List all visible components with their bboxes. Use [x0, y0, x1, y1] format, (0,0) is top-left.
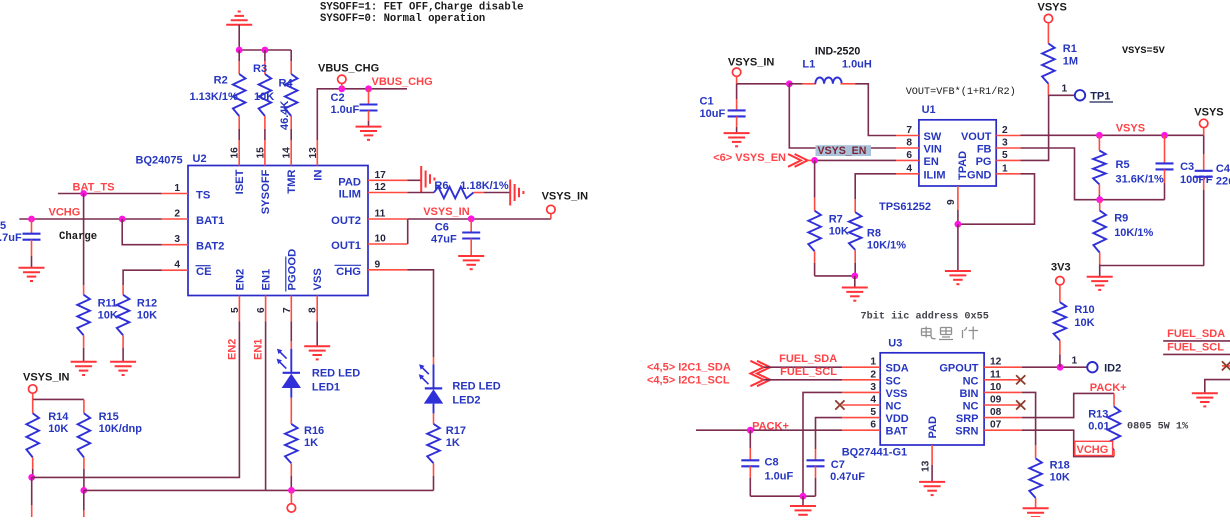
junction bottom ground	[800, 493, 807, 500]
svg-text:7: 7	[906, 125, 912, 136]
svg-text:LED1: LED1	[312, 382, 340, 394]
capacitor C7 bottom lead	[815, 466, 817, 478]
ground below C1	[724, 132, 750, 134]
svg-text:R11: R11	[98, 298, 118, 310]
svg-text:<6> VSYS_EN: <6> VSYS_EN	[713, 152, 786, 164]
svg-text:EN2: EN2	[234, 269, 246, 291]
svg-text:2: 2	[1002, 125, 1008, 136]
svg-text:VSS: VSS	[886, 388, 908, 400]
svg-text:TMR: TMR	[286, 170, 298, 194]
LED LED1	[290, 349, 292, 373]
ground bottom right	[1192, 392, 1218, 394]
resistor R7 top lead	[814, 160, 816, 197]
U2 pin 13 (IN) stub	[316, 140, 318, 166]
U3 pin 11 (NC) stub	[984, 379, 1022, 381]
U3 pin 08 (SRP) stub	[984, 417, 1022, 419]
svg-text:R5: R5	[1116, 159, 1130, 171]
svg-text:10K/1%: 10K/1%	[867, 240, 906, 252]
svg-text:VSYS_EN: VSYS_EN	[818, 145, 867, 157]
wire EN pin	[807, 159, 814, 161]
svg-text:VBUS_CHG: VBUS_CHG	[372, 76, 433, 88]
resistor R9 bottom lead	[1099, 253, 1101, 265]
capacitor C2	[360, 103, 378, 105]
ground below C2	[356, 126, 382, 128]
capacitor C6	[462, 231, 480, 233]
wire to VSYS right terminal	[1203, 128, 1205, 136]
svg-text:R16: R16	[304, 425, 324, 437]
capacitor C1 bottom lead	[736, 116, 738, 127]
wire FUEL_SCL right edge	[1163, 353, 1230, 355]
svg-text:VDD: VDD	[886, 413, 909, 425]
wire R2 bottom lead	[238, 116, 240, 129]
resistor R15	[78, 413, 91, 457]
capacitor C8	[741, 459, 759, 461]
wire R6 right lead	[474, 192, 485, 194]
junction BAT2 branch	[119, 216, 126, 223]
svg-text:<4,5> I2C1_SDA: <4,5> I2C1_SDA	[647, 362, 731, 374]
svg-text:10K: 10K	[1074, 317, 1094, 329]
junction R5/R9	[1096, 196, 1103, 203]
svg-text:ISET: ISET	[234, 169, 246, 194]
svg-text:11: 11	[990, 369, 1001, 380]
svg-text:PGOOD: PGOOD	[286, 249, 298, 291]
resistor R15 top lead	[83, 399, 85, 413]
wire VSS bend to ground rail	[803, 392, 842, 496]
wire EN1/LED bottom row	[84, 489, 434, 491]
capacitor C7	[807, 459, 825, 461]
svg-text:C5: C5	[0, 220, 6, 232]
terminal 3V3	[1056, 277, 1064, 285]
svg-text:2: 2	[174, 209, 180, 220]
svg-text:R8: R8	[867, 228, 881, 240]
wire to VSYS_IN terminal	[550, 214, 552, 219]
U3 pin 6 (BAT) stub	[842, 429, 880, 431]
off-page connector VSYS_EN	[788, 154, 801, 167]
svg-text:1K: 1K	[304, 437, 318, 449]
svg-text:12: 12	[375, 182, 387, 193]
svg-text:IN: IN	[312, 170, 324, 181]
svg-text:9: 9	[375, 259, 381, 270]
resistor R18	[1029, 458, 1042, 498]
svg-text:2: 2	[870, 369, 876, 380]
svg-text:VSYS: VSYS	[1116, 123, 1145, 135]
junction R7/R8 ground	[851, 273, 858, 280]
wire EN2 row to pin 5	[32, 322, 240, 478]
svg-text:R7: R7	[829, 214, 843, 226]
svg-text:ILIM: ILIM	[339, 189, 361, 201]
svg-text:R18: R18	[1050, 460, 1070, 472]
resistor R10 bottom lead	[1059, 341, 1061, 355]
junction R3 top	[262, 47, 269, 54]
resistor R18 top lead	[1035, 445, 1037, 458]
svg-text:16: 16	[230, 147, 241, 159]
U2 pin 4 (CE) stub	[162, 269, 189, 271]
junction C8 top	[747, 427, 754, 434]
wire SRP to R13 top	[1022, 393, 1114, 417]
svg-text:10uF: 10uF	[700, 108, 726, 120]
resistor R11 top lead	[83, 285, 85, 295]
wire ground to resistor top row	[238, 25, 240, 50]
terminal VSYS_IN top	[732, 68, 740, 76]
off-page connector I2C1_SDA/SCL	[750, 361, 763, 386]
svg-text:9: 9	[946, 199, 957, 205]
resistor R8 top lead	[854, 199, 856, 212]
resistor R1 bottom lead	[1047, 84, 1049, 96]
svg-text:R3: R3	[253, 63, 267, 75]
U2 pin 8 (VSS) stub	[316, 296, 318, 322]
svg-text:09: 09	[990, 395, 1002, 406]
wire R4 bottom lead	[290, 116, 292, 129]
svg-text:1K: 1K	[446, 437, 460, 449]
testpoint ID2	[1087, 362, 1097, 372]
capacitor C2 bottom lead	[368, 111, 370, 122]
svg-text:12: 12	[990, 357, 1002, 368]
capacitor C4	[1195, 170, 1213, 172]
highlight VSYS_EN selection	[816, 145, 872, 156]
wire SRN to R13 bottom	[1022, 430, 1114, 456]
svg-text:1.0uH: 1.0uH	[842, 59, 872, 71]
svg-text:C7: C7	[831, 459, 845, 471]
resistor R4	[285, 74, 298, 116]
svg-text:VSYS: VSYS	[1038, 2, 1067, 14]
resistor R13 bottom lead	[1113, 450, 1115, 457]
wire to ground	[854, 276, 856, 288]
svg-text:VSYS_IN: VSYS_IN	[542, 191, 589, 203]
svg-text:C3: C3	[1180, 161, 1194, 173]
svg-text:LED2: LED2	[452, 395, 480, 407]
svg-text:10K: 10K	[829, 226, 849, 238]
svg-text:10K/dnp: 10K/dnp	[99, 423, 143, 435]
svg-text:46.4K: 46.4K	[279, 101, 291, 130]
svg-text:10K/1%: 10K/1%	[1114, 227, 1153, 239]
resistor R12 bottom lead	[122, 335, 124, 348]
svg-text:VSYS_IN: VSYS_IN	[728, 57, 775, 69]
wire VSYS_IN to R14/R15 row	[32, 393, 34, 399]
wire to bottom terminal	[290, 490, 292, 503]
capacitor C8 bottom lead	[749, 466, 751, 478]
svg-text:BQ24075: BQ24075	[136, 155, 183, 167]
wire BAT row	[696, 429, 842, 431]
svg-text:4.7uF: 4.7uF	[0, 232, 22, 244]
svg-text:IND-2520: IND-2520	[815, 46, 860, 58]
U1 pin 4 (ILIM) stub	[896, 173, 919, 175]
svg-text:BIN: BIN	[960, 388, 979, 400]
wire LED2 to R17	[433, 413, 435, 424]
svg-text:NC: NC	[963, 375, 979, 387]
capacitor C6 bottom lead	[470, 239, 472, 257]
svg-text:R1: R1	[1063, 43, 1077, 55]
svg-text:10: 10	[375, 234, 387, 245]
svg-text:VIN: VIN	[924, 144, 942, 156]
no-connect X right edge	[1222, 361, 1230, 370]
svg-text:R10: R10	[1074, 304, 1094, 316]
terminal VSYS_IN right	[547, 205, 555, 213]
svg-text:R14: R14	[48, 411, 69, 423]
svg-text:R6: R6	[434, 180, 448, 192]
svg-text:FB: FB	[977, 144, 992, 156]
U2 pin 10 (OUT1) stub	[368, 243, 408, 245]
svg-text:EN1: EN1	[252, 339, 264, 360]
U2 pin 7 (PGOOD) stub	[290, 296, 292, 322]
svg-text:EN1: EN1	[261, 269, 273, 291]
svg-text:1M: 1M	[1063, 56, 1078, 68]
wire GND pin to TPAD	[958, 174, 1035, 224]
resistor R14	[26, 413, 39, 457]
svg-text:8: 8	[308, 307, 319, 313]
no-connect X pin 11	[1016, 375, 1025, 384]
resistor R17 bottom lead	[433, 463, 435, 476]
inductor L1	[815, 77, 841, 83]
junction C5 top	[28, 216, 35, 223]
capacitor C6 top lead	[470, 219, 472, 233]
svg-text:13: 13	[921, 460, 932, 472]
junction R14 bottom	[28, 474, 35, 481]
resistor R8	[849, 212, 862, 250]
svg-text:NC: NC	[963, 401, 979, 413]
svg-text:SRP: SRP	[956, 413, 979, 425]
svg-text:7bit iic address 0x55: 7bit iic address 0x55	[861, 311, 989, 323]
svg-text:VOUT=VFB*(1+R1/R2): VOUT=VFB*(1+R1/R2)	[906, 86, 1016, 98]
wire VSYS_IN to L1 row	[736, 76, 738, 83]
junction VBUS terminal	[338, 85, 345, 92]
svg-text:OUT1: OUT1	[331, 240, 361, 252]
wire OUT2/OUT1 join	[407, 219, 409, 244]
junction R2 top	[236, 47, 243, 54]
U1 pin 2 (VOUT) stub	[996, 135, 1020, 137]
svg-text:5: 5	[1002, 150, 1008, 161]
ground above R2/R3	[226, 24, 252, 26]
wire pin 7 to LED1	[290, 322, 292, 342]
terminal VSYS top	[1044, 14, 1052, 22]
terminal VSYS_IN bottom-left	[29, 385, 37, 393]
wire R7 to R8 bottom row	[815, 275, 855, 277]
svg-text:07: 07	[990, 420, 1002, 431]
resistor R2	[233, 74, 246, 116]
U1 pin 9 (TPAD) stub	[957, 186, 959, 210]
svg-text:VSS: VSS	[312, 268, 324, 291]
svg-text:FUEL_SCL: FUEL_SCL	[1167, 342, 1224, 354]
U3 pin 4 (NC) stub	[842, 404, 880, 406]
svg-text:5: 5	[230, 307, 241, 313]
U3 pin 09 (NC) stub	[984, 404, 1022, 406]
svg-text:1: 1	[1062, 84, 1068, 95]
svg-text:VSYS_IN: VSYS_IN	[423, 206, 470, 218]
svg-text:TPS61252: TPS61252	[879, 201, 931, 213]
svg-text:1: 1	[1002, 163, 1008, 174]
svg-text:15: 15	[255, 147, 266, 159]
capacitor C5 bottom lead	[31, 240, 33, 256]
svg-text:VSYS: VSYS	[1194, 107, 1223, 119]
wire R4 top lead	[290, 50, 292, 61]
svg-text:C6: C6	[435, 222, 449, 234]
U3 pin 5 (VDD) stub	[842, 417, 880, 419]
svg-text:3: 3	[870, 382, 876, 393]
svg-text:BAT_TS: BAT_TS	[73, 182, 115, 194]
junction R15 bottom	[80, 487, 87, 494]
svg-text:VSYS_IN: VSYS_IN	[23, 372, 70, 384]
U3 pin 2 (SC) stub	[842, 379, 880, 381]
junction C3 top	[1161, 132, 1168, 139]
U1 pin 8 (VIN) stub	[896, 147, 919, 149]
svg-text:1: 1	[1072, 356, 1078, 367]
U3 pin 13 (PAD) stub	[931, 445, 933, 465]
junction BAT_TS	[80, 190, 87, 197]
svg-text:0.47uF: 0.47uF	[830, 471, 865, 483]
no-connect X pin 4	[835, 400, 844, 409]
wire to U3 ground	[802, 496, 804, 506]
svg-text:U1: U1	[922, 104, 936, 116]
wire pin 12 ILIM to R6	[408, 192, 435, 194]
U2 pin 16 (ISET) stub	[238, 140, 240, 166]
svg-text:10K: 10K	[1050, 472, 1070, 484]
svg-text:U3: U3	[888, 338, 902, 350]
U2 pin 1 (TS) stub	[162, 193, 189, 195]
svg-text:C2: C2	[331, 92, 345, 104]
svg-text:FUEL_SDA: FUEL_SDA	[1167, 328, 1225, 340]
ground below R18	[1023, 507, 1049, 509]
wire R2 top lead	[238, 50, 240, 61]
resistor R9	[1093, 211, 1106, 253]
wire FUEL_SCL	[764, 379, 843, 381]
junction R16 bottom	[288, 487, 295, 494]
resistor R5 bottom lead	[1098, 184, 1100, 195]
svg-text:6: 6	[870, 420, 876, 431]
svg-text:NC: NC	[886, 401, 902, 413]
LED LED2	[433, 364, 435, 388]
IC U3 BQ27441-G1 box	[880, 353, 984, 445]
terminal LED bottom	[287, 504, 295, 512]
wire pin 9 CHG to LED2	[408, 270, 434, 357]
capacitor C3 bottom lead	[1164, 169, 1166, 183]
svg-text:SYSOFF: SYSOFF	[260, 169, 272, 214]
svg-text:47uF: 47uF	[431, 234, 457, 246]
resistor R13 top lead	[1113, 393, 1115, 406]
U2 pin 2 (BAT1) stub	[162, 218, 189, 220]
svg-text:SRN: SRN	[955, 426, 978, 438]
junction EN/R7	[811, 157, 818, 164]
resistor R1	[1042, 44, 1055, 84]
wire C4 column	[1203, 135, 1205, 154]
svg-text:EN2: EN2	[226, 339, 238, 360]
svg-text:EN: EN	[924, 156, 939, 168]
svg-text:14: 14	[282, 147, 293, 159]
wire BAT_TS to pin 1	[58, 193, 162, 195]
resistor R12 top lead	[122, 285, 124, 295]
svg-text:3V3: 3V3	[1051, 262, 1071, 274]
terminal VSYS right	[1200, 119, 1208, 127]
resistor R11	[77, 295, 90, 335]
svg-text:1: 1	[870, 357, 876, 368]
svg-text:3: 3	[174, 234, 180, 245]
svg-text:PACK+: PACK+	[1090, 382, 1127, 394]
U2 pin 15 (SYSOFF) stub	[264, 140, 266, 166]
wire R1 to TP1	[1048, 94, 1074, 96]
U2 pin 3 (BAT2) stub	[162, 244, 189, 246]
wire LED1 to R16	[290, 398, 292, 410]
wire below R14 junction	[31, 477, 33, 505]
resistor R16 bottom lead	[290, 463, 292, 476]
wire FUEL_SDA	[764, 366, 843, 368]
U3 pin 1 (SDA) stub	[842, 366, 880, 368]
svg-text:CE: CE	[196, 266, 212, 278]
wire VOUT VSYS row	[1021, 134, 1204, 136]
capacitor C8 top lead	[749, 430, 751, 448]
svg-text:6: 6	[906, 150, 912, 161]
svg-text:TS: TS	[196, 190, 211, 202]
svg-text:1.0uF: 1.0uF	[765, 471, 794, 483]
svg-text:R17: R17	[446, 425, 466, 437]
U3 pin 07 (SRN) stub	[984, 429, 1022, 431]
wire BAT_TS down to R11	[83, 194, 85, 286]
capacitor C3	[1156, 162, 1174, 164]
resistor R14 bottom lead	[32, 457, 34, 469]
svg-text:22uF: 22uF	[1216, 176, 1230, 188]
capacitor C1	[728, 109, 746, 111]
svg-text:3: 3	[1002, 138, 1008, 149]
ground below C5	[19, 267, 45, 269]
U2 pin 17 (PAD) stub	[368, 179, 408, 181]
U2 pin 5 (EN2) stub	[238, 296, 240, 322]
resistor R9 top lead	[1099, 200, 1101, 211]
svg-text:R15: R15	[99, 411, 119, 423]
svg-text:RED LED: RED LED	[312, 368, 360, 380]
svg-text:SW: SW	[924, 131, 942, 143]
wire GPOUT row	[1022, 366, 1087, 368]
U3 pin 3 (VSS) stub	[842, 391, 880, 393]
svg-text:4: 4	[906, 163, 912, 174]
wire PG to R1/TP1	[1021, 95, 1049, 160]
resistor R13	[1108, 407, 1121, 451]
svg-text:8: 8	[906, 138, 912, 149]
net label VCHG boxed	[1075, 441, 1113, 455]
junction C2 top	[365, 85, 372, 92]
svg-text:13: 13	[308, 147, 319, 159]
resistor R14 top lead	[32, 399, 34, 413]
U3 pin 12 (GPOUT) stub	[984, 366, 1022, 368]
ground below R11	[71, 361, 97, 363]
svg-text:SYSOFF=1: FET OFF,Charge disab: SYSOFF=1: FET OFF,Charge disable	[320, 2, 523, 14]
svg-text:10K: 10K	[98, 310, 118, 322]
junction TPAD	[955, 221, 962, 228]
wire top row R2-R3-R4	[239, 49, 291, 51]
svg-text:4: 4	[870, 395, 876, 406]
resistor R8 bottom lead	[854, 250, 856, 263]
svg-text:10K: 10K	[48, 423, 68, 435]
junction R5 top	[1096, 132, 1103, 139]
wire BAT2 branch	[122, 219, 161, 245]
svg-text:<4,5> I2C1_SCL: <4,5> I2C1_SCL	[647, 375, 730, 387]
svg-text:31.6K/1%: 31.6K/1%	[1116, 174, 1165, 186]
resistor R17	[427, 424, 440, 463]
wire R3 top lead	[264, 50, 266, 61]
terminal VBUS_CHG	[338, 75, 346, 83]
svg-text:ID2: ID2	[1104, 363, 1121, 375]
wire CE branch to R12	[123, 270, 161, 285]
svg-text:SYSOFF=0: Normal operation: SYSOFF=0: Normal operation	[320, 13, 485, 25]
testpoint TP1	[1075, 90, 1085, 100]
svg-text:R13: R13	[1088, 409, 1108, 421]
wire junction to L1	[789, 83, 802, 85]
ground right of R6	[509, 180, 511, 206]
svg-text:SC: SC	[886, 375, 901, 387]
svg-text:SDA: SDA	[886, 363, 909, 375]
svg-text:0805 5W 1%: 0805 5W 1%	[1127, 422, 1189, 433]
wire R9 bottom to ground	[1099, 264, 1101, 277]
wire stub with no-connect right edge	[1222, 365, 1230, 367]
resistor R11 bottom lead	[83, 335, 85, 348]
wire TPAD to ground	[957, 224, 959, 271]
ground below pin 8 VSS	[316, 322, 318, 347]
